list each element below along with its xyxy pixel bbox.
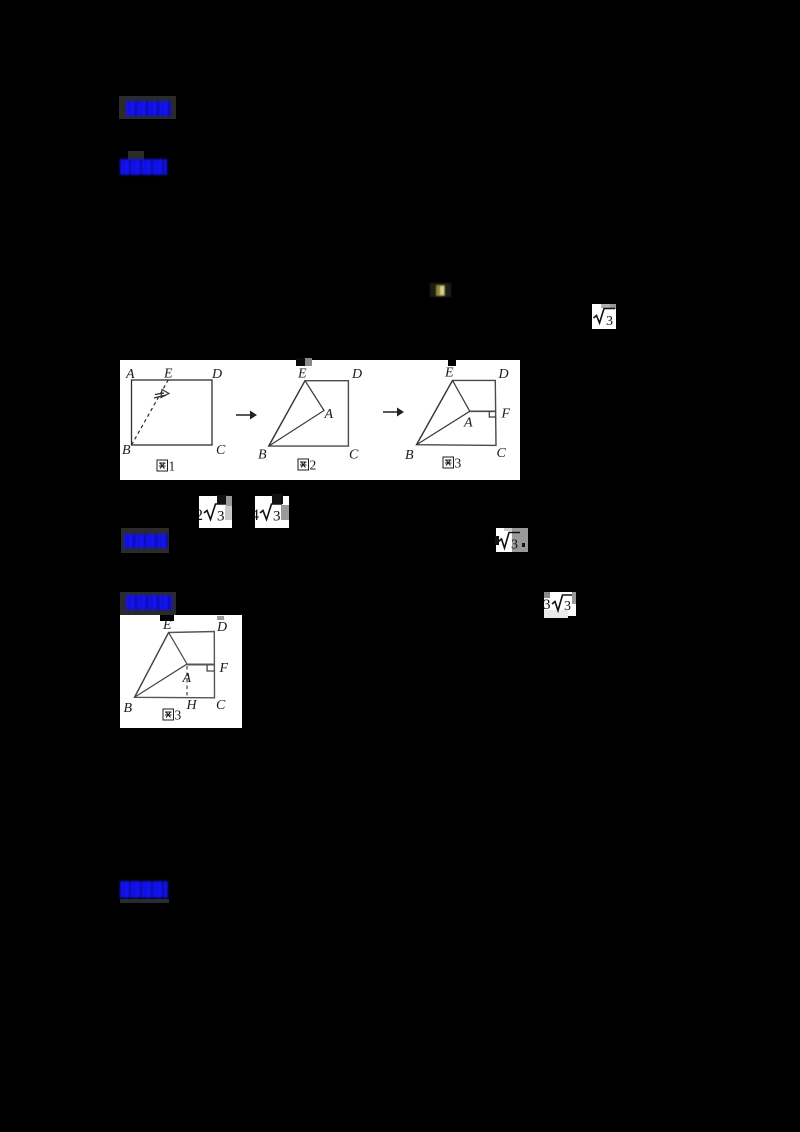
svg-text:3: 3 — [455, 456, 462, 471]
figure 3 right angle mark at F — [489, 411, 495, 417]
right angle mark at F — [207, 666, 214, 672]
svg-text:3: 3 — [175, 708, 182, 723]
figure 2 trapezoid E D C B — [269, 381, 349, 446]
svg-text:B: B — [122, 443, 131, 458]
big white figure box — [120, 360, 520, 480]
label L3 (blue heading 3) — [121, 528, 169, 553]
triangle E A B — [135, 633, 188, 698]
svg-text:F: F — [501, 407, 511, 422]
svg-text:D: D — [351, 367, 362, 382]
svg-text:3: 3 — [544, 597, 551, 613]
svg-text:D: D — [216, 620, 227, 635]
label L1 (blue heading 1) — [119, 96, 176, 119]
figure 3 trapezoid E D C B — [417, 380, 497, 445]
scan artifact black bar above fig3 E — [448, 357, 456, 366]
trapezoid E D C B — [135, 632, 215, 698]
svg-text:B: B — [258, 448, 267, 463]
segment A F — [187, 664, 214, 666]
svg-text:2: 2 — [310, 458, 317, 473]
figure 2 triangle E A B — [269, 381, 324, 446]
label L2 (blue heading 2) — [128, 151, 144, 160]
svg-text:4: 4 — [255, 507, 259, 524]
svg-text:E: E — [297, 367, 307, 382]
sqrt box S2: 2 sqrt(3) — [199, 496, 232, 528]
svg-text:3: 3 — [511, 537, 518, 552]
svg-text:C: C — [216, 698, 226, 713]
figure 3 segment A F — [470, 410, 496, 412]
svg-text:1: 1 — [169, 459, 176, 474]
figure 1 fold arrow — [154, 393, 166, 398]
svg-text:C: C — [349, 448, 359, 463]
svg-text:A: A — [324, 407, 334, 422]
figure 3 caption 图3 — [443, 457, 454, 468]
svg-text:F: F — [219, 661, 229, 676]
svg-text:2: 2 — [199, 507, 203, 524]
svg-text:3: 3 — [606, 314, 613, 329]
svg-text:B: B — [405, 448, 414, 463]
arrow between fig2 and fig3 — [383, 411, 400, 413]
figure 2 caption 图2 — [298, 459, 309, 470]
svg-text:E: E — [163, 367, 173, 382]
figure 3 triangle E A B — [417, 380, 470, 444]
svg-text:3: 3 — [217, 509, 225, 525]
figure 1 dashed fold line B to E — [132, 380, 169, 445]
label L4 (blue heading 4) — [120, 592, 176, 615]
svg-text:A: A — [182, 671, 192, 686]
svg-text:3: 3 — [564, 599, 571, 614]
figure 1 caption 图1 — [157, 460, 168, 471]
svg-text:A: A — [463, 416, 473, 431]
svg-text:B: B — [124, 701, 133, 716]
caption 图3 — [163, 709, 174, 720]
sqrt box S3: 4 sqrt(3) — [255, 496, 289, 528]
sqrt box S5: 3 sqrt(3) — [544, 592, 576, 616]
svg-text:C: C — [216, 443, 226, 458]
sqrt box S1: sqrt(3) — [592, 304, 616, 329]
svg-text:C: C — [497, 446, 507, 461]
scan artifact black mark above fig2 E — [296, 358, 305, 366]
scan artifact grey smudge above lower-fig D — [217, 616, 224, 620]
figure 1 rectangle ABCD — [132, 380, 213, 445]
arrow between fig1 and fig2 — [236, 414, 253, 416]
lower white figure box (figure 3 detail) — [120, 615, 242, 728]
svg-text:D: D — [498, 367, 509, 382]
svg-text:D: D — [211, 367, 222, 382]
svg-text:A: A — [125, 367, 135, 382]
sqrt box S4: = sqrt(3). — [496, 528, 521, 553]
scan artifact black bar above lower-fig E — [160, 615, 174, 621]
dashed altitude A H — [186, 666, 188, 698]
svg-text:3: 3 — [273, 509, 281, 525]
svg-text:H: H — [186, 698, 198, 713]
svg-text:E: E — [444, 366, 454, 381]
yellow highlight mark — [430, 283, 451, 297]
label L5 (blue heading 5) — [120, 881, 168, 898]
